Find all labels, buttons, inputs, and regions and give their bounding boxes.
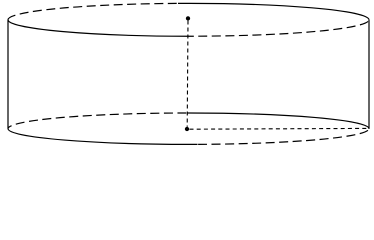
top ellipse: solid front-right top arc [178,3,369,19]
top ellipse: dashed back-left arc [8,3,178,19]
right side wire [368,20,370,129]
dashed radius [190,127,369,130]
bottom center dot [185,127,189,131]
cylinder diagram [0,0,374,150]
bottom ellipse: solid bottom-left arc [8,129,198,145]
bottom ellipse: dashed bottom-right arc [198,129,370,145]
top ellipse: dashed bottom-right arc [192,20,370,36]
bottom ellipse: solid back-right arc [188,113,370,129]
bottom ellipse: dashed back-left arc [8,113,188,129]
left side wire [7,20,9,129]
top ellipse: solid bottom-left arc [8,20,192,36]
top center dot [186,16,190,20]
dashed axis [186,21,189,127]
